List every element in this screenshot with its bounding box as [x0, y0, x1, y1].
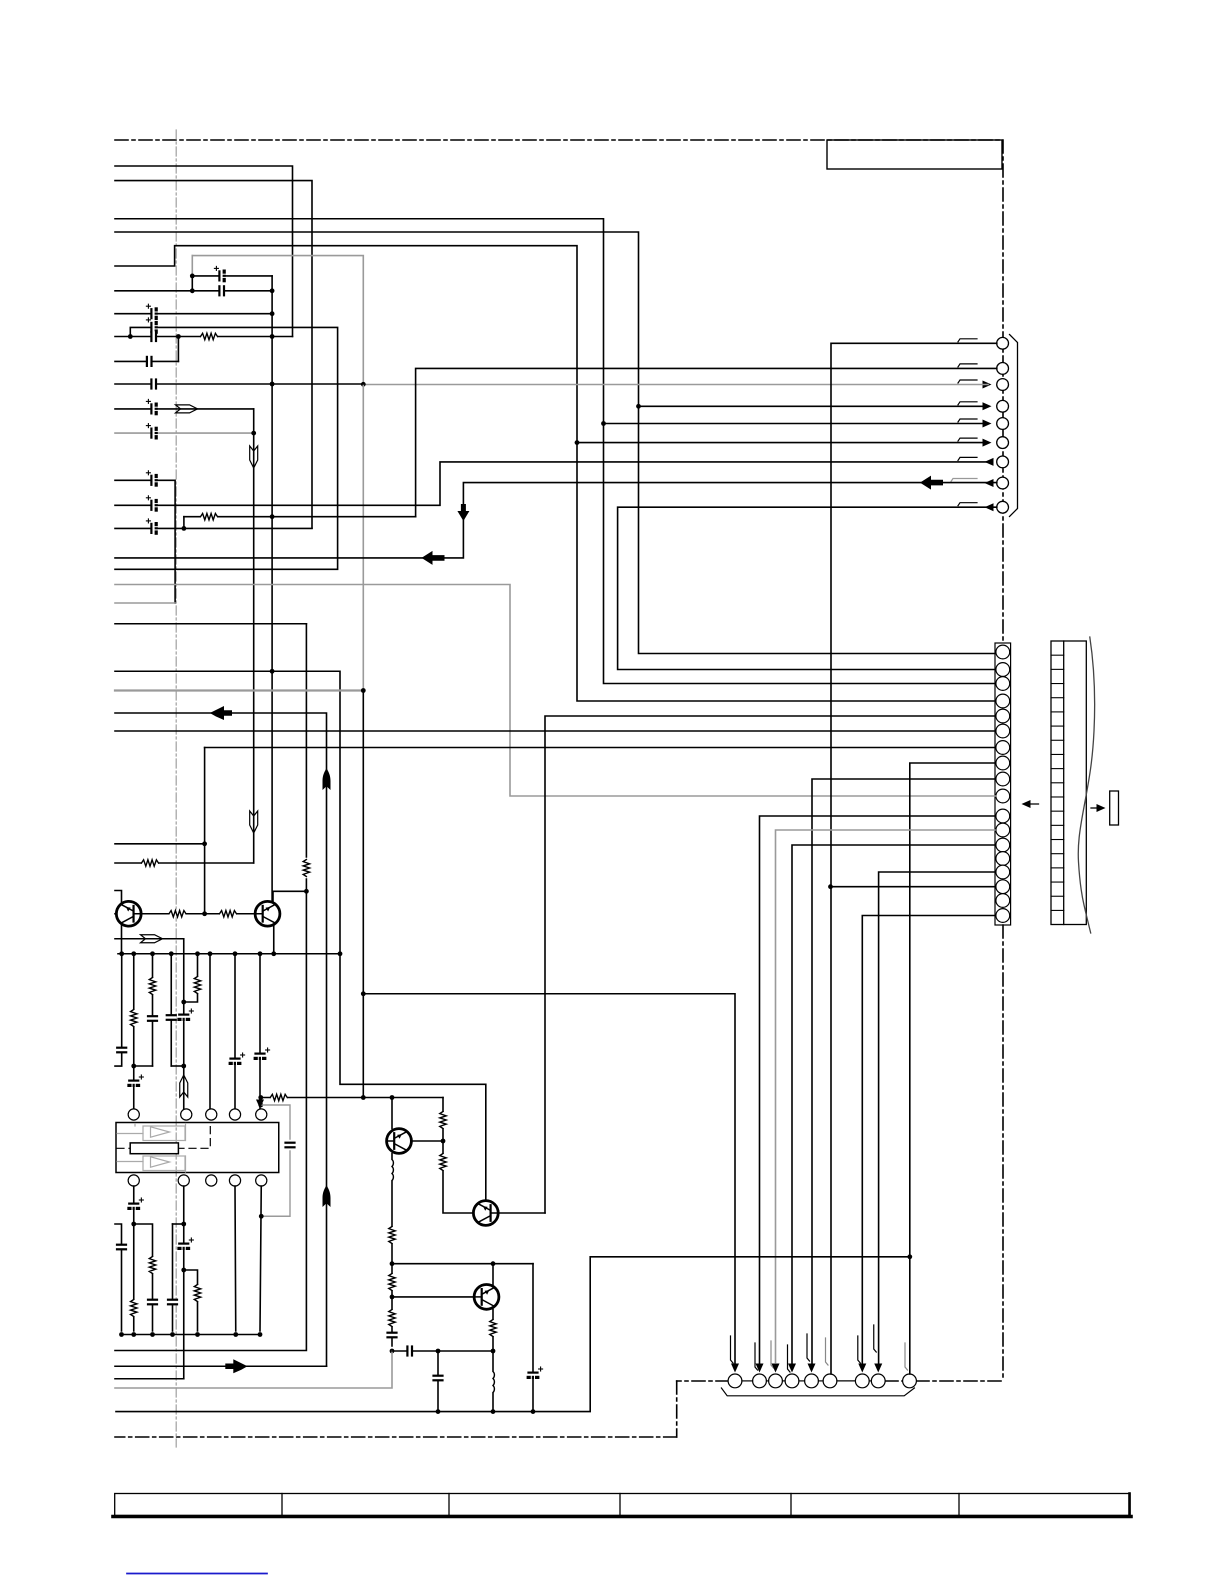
capacitor C13a vertical [117, 1048, 127, 1053]
gray wire row 603 from left edge [115, 602, 175, 604]
IC U1 internal gray stub upper [117, 1133, 143, 1135]
resistor R10 vertical [149, 1257, 156, 1274]
leg 152.5 with R7a and C13 [152, 954, 154, 1066]
connector CN-bot pin 9 hook mark [905, 1343, 908, 1370]
hyperlink underline bottom left [127, 1573, 267, 1575]
capacitor C3 (polarized) [146, 304, 158, 319]
junction lower bus [233, 1332, 238, 1337]
link between cap pair nodes [191, 276, 193, 291]
wire Q1 emitter to ground bus [121, 926, 123, 954]
connector CN-bot link 1-2 [742, 1380, 753, 1382]
connector CN-top pin 5 circle [997, 418, 1009, 430]
vertical 183.9 tap down to row 528.4 [183, 517, 185, 529]
lower long bus row 1411.6 [116, 1257, 910, 1412]
junction ground bus [169, 951, 174, 956]
resistor R16 vertical [389, 1274, 396, 1291]
connector CN-bot pin 9 circle [903, 1374, 917, 1388]
hollow flow arrow up to IC pin2 [180, 1075, 188, 1097]
wire CN-top pin1 net / long riser 830 [831, 343, 997, 1374]
capacitor C23 (polarized) vertical [179, 1238, 194, 1250]
hollow flow arrow right on row 938.75 [141, 935, 163, 943]
border: dash-dot link left of bottom connector [677, 1380, 729, 1382]
wire row 1378.75 from left edge [115, 1378, 184, 1380]
connector CN-top pin 4 circle [997, 400, 1009, 412]
connector CN-top pin 9 hook mark [958, 503, 977, 506]
wire net A2: row 180.6 to vertical 312 down to cap row 527.9 [115, 181, 312, 528]
connector CN-bot pin 3 circle [769, 1374, 783, 1388]
FFC connector contact column divider [1063, 641, 1065, 925]
arrowhead into CN-bot pin 5 [808, 1364, 816, 1373]
connector CN-mid pin 15 circle [996, 865, 1010, 879]
wire row 863 from left edge with R2 [115, 862, 254, 864]
gray chain down to IC pin5 leg [261, 1151, 290, 1216]
junction row 1263.7 [390, 1261, 395, 1266]
IC U1 internal gray link upper from pin1 [134, 1124, 136, 1127]
resistor R13 vertical [440, 1112, 447, 1129]
resistor R4 vertical [303, 860, 310, 877]
capacitor C4 (polarized) [146, 318, 158, 333]
FFC contact tick 8 [1051, 753, 1064, 755]
gray wire row 433.1 with C8 [115, 432, 254, 434]
transistor Q1 [116, 901, 141, 926]
connector CN-bot link 3-4 [782, 1380, 785, 1382]
junction ground bus [150, 951, 155, 956]
wire Q5 base [412, 1140, 444, 1142]
wire row 290.8 from left edge through C2 [115, 290, 272, 292]
vertical 306.4 upper segment [305, 624, 307, 857]
resistor R17 vertical [389, 1310, 396, 1327]
wire CN-mid pin15 riser 878.6 [879, 872, 995, 1363]
junction lower long bus [436, 1409, 441, 1414]
arrowhead into CN-bot pin 3 [772, 1364, 780, 1373]
capacitor C19 (polarized) vertical [129, 1198, 144, 1210]
connector CN-mid pin 13 circle [996, 838, 1010, 852]
link row 1066 right pair [171, 1065, 184, 1067]
wire net A3: row 218.75 to vertical 603.5 down to CN-mid pin3 [115, 219, 995, 684]
resistor R5 [169, 910, 186, 917]
FFC flex cable wave [1078, 637, 1094, 933]
chain 172.5 with C22 [173, 1223, 184, 1225]
table: column divider 4 [790, 1494, 792, 1516]
leg 121.7 with C13a to left edge [115, 954, 122, 1066]
junction lower bus [258, 1332, 263, 1337]
junction ground bus [271, 951, 276, 956]
resistor R9 vertical [130, 1300, 137, 1317]
connector CN-top pin 7 hook mark [958, 457, 977, 460]
border: bottom dash-dot boundary line [115, 1436, 677, 1438]
junction lower bus [150, 1332, 155, 1337]
lower bus row 1334.5 [122, 1334, 261, 1336]
IC U1 internal small box [130, 1143, 178, 1154]
junction row 516.7 on stem [270, 514, 275, 519]
connector CN-mid pin 6 circle [996, 724, 1010, 738]
connector CN-bot pin 3 hook mark [771, 1341, 774, 1368]
capacitor C13 vertical [147, 1016, 157, 1021]
connector CN-bot link 4-5 [799, 1380, 805, 1382]
FFC contact tick 10 [1051, 782, 1064, 784]
junction ground bus [195, 951, 200, 956]
wire row 313.7 from left edge with C3 [115, 313, 272, 315]
capacitor C6 [151, 379, 156, 389]
riser 443 with R13 R14 down to Q4 row [443, 1098, 473, 1214]
capacitor C2 [219, 286, 224, 296]
junction Q2 collector on vertical 306.4 [304, 889, 309, 894]
capacitor C14 vertical [166, 1015, 176, 1020]
connector CN-mid pin 3 circle [996, 677, 1010, 691]
junction pin6 leg row 1224 [131, 1222, 136, 1227]
leg 260 with C17 to IC pin5 [259, 954, 261, 1110]
wire row 1097.5 with R12 [261, 1097, 443, 1099]
IC U1 bottom pin 8 [206, 1175, 217, 1186]
connector CN-top pin 8 hook mark [951, 479, 977, 482]
arrowhead into CN-top pin 4 [983, 402, 992, 410]
junction ground bus [119, 951, 124, 956]
junction Q5 base row [441, 1139, 446, 1144]
junction row 1351 [390, 1349, 395, 1354]
junction ground bus [233, 951, 238, 956]
junction riser 830 row 886.7 [828, 884, 833, 889]
connector CN-top pin 5 hook mark [958, 419, 977, 422]
wire branch to CN-top pin4 [639, 405, 988, 407]
capacitor C17 (polarized) vertical [255, 1048, 270, 1060]
resistor R1 [201, 333, 218, 340]
IC U1 bottom pin 6 [128, 1175, 139, 1186]
wire row 623.75 to vertical 306.4 [115, 623, 306, 625]
IC U1 bottom pin 9 [229, 1175, 240, 1186]
FFC contact tick 11 [1051, 796, 1064, 798]
IC U1 top pin 1 [128, 1109, 139, 1120]
wire Q2 emitter to ground bus [273, 926, 275, 954]
connector CN-mid pin 2 circle [996, 663, 1010, 677]
branch row 1224 to chain 152.5 [134, 1224, 153, 1331]
capacitor C8 (polarized) [146, 424, 158, 439]
junction gray row 690.5 [361, 688, 366, 693]
junction riser 909.8 row 1256.8 [907, 1254, 912, 1259]
wire Q7 base row 1296.9 [392, 1296, 474, 1298]
wire cap-pair top row 275.9 [192, 275, 272, 277]
wire row 408.9 with C7 and flow arrow [115, 408, 254, 410]
gray wire CN-mid pin12 riser 775.5 [776, 830, 996, 1363]
capacitor C1 (polarized) [214, 266, 226, 281]
connector CN-bot bracket [721, 1388, 914, 1396]
table: column divider 2 [448, 1494, 450, 1516]
vertical 204.6 down to Q1/Q2 node [204, 748, 206, 914]
connector CN-bot pin 7 circle [855, 1374, 869, 1388]
capacitor C7 (polarized) [146, 399, 158, 414]
junction lower long bus [491, 1409, 496, 1414]
connector CN-top pin 6 hook mark [958, 438, 977, 441]
connector CN-bot pin 1 circle [728, 1374, 742, 1388]
connector CN-mid pin 11 circle [996, 809, 1010, 823]
border: light vertical dash-dot board divider [175, 130, 177, 1447]
connector CN-top pin 3 circle [997, 379, 1009, 391]
bold direction arrow left on row 557.9 [422, 551, 445, 565]
arrowhead into CN-top pin 6 [983, 439, 992, 447]
resistor R15 vertical [389, 1227, 396, 1244]
annotation arrow pointing right to label [1091, 807, 1102, 809]
junction gray vertical / pin3 wire [361, 382, 366, 387]
wire CN-mid pin18 riser 862.3 [862, 916, 995, 1364]
junction row 433.1 [251, 431, 256, 436]
table: thick bottom rule [113, 1515, 1131, 1519]
connector CN-bot pin 4 circle [785, 1374, 799, 1388]
wire CN-mid pin11 riser 759.5 [760, 816, 996, 1363]
wire row 361.4 from left edge with C6a [115, 360, 178, 362]
junction lower bus [195, 1332, 200, 1337]
connector CN-mid pin 7 circle [996, 741, 1010, 755]
IC U1 internal gray stub lower [117, 1161, 143, 1163]
junction leg row 1065 [131, 1064, 136, 1069]
connector CN-top pin 7 circle [997, 456, 1009, 468]
junction pin7 leg row 1270 [181, 1268, 186, 1273]
wire CN-mid pin8 riser 909.8 [910, 763, 995, 1374]
arrowhead into CN-bot pin 1 [731, 1364, 739, 1373]
resistor R11 vertical [194, 1285, 201, 1302]
connector CN-bot link 2-3 [766, 1380, 768, 1382]
border: right vertical dash-dot boundary (lower) [1002, 925, 1004, 1381]
connector CN-bot link 5-6 [818, 1380, 823, 1382]
table: title block bottom [115, 1494, 1130, 1516]
gray wire into CN-top pin3 [363, 384, 988, 386]
wire row 1263.7 link [392, 1263, 533, 1265]
junction on vertical 603.5 [601, 421, 606, 426]
capacitor C16 (polarized) vertical [230, 1053, 245, 1065]
junction row 1097.5 at 392 [390, 1095, 395, 1100]
wire row 843.8 from left edge [115, 843, 205, 845]
connector CN-bot pin 5 hook mark [807, 1334, 810, 1361]
leg 197.5 with R8 joining 183.75 [185, 954, 198, 1002]
FFC contact tick 19 [1051, 909, 1064, 911]
connector CN-top pin 4 hook mark [958, 402, 977, 405]
capacitor C6a [147, 356, 152, 366]
wire Q5 emitter chain [391, 1154, 393, 1347]
junction lower bus [119, 1332, 124, 1337]
resistor R7a vertical [149, 978, 156, 995]
wire branch to CN-top pin6 [577, 442, 987, 444]
capacitor C25 (polarized) vertical [528, 1367, 543, 1379]
IC U1 internal amp triangle lower [151, 1157, 170, 1167]
connector CN-top bracket [1010, 335, 1018, 517]
connector CN-bot pin 6 hook mark [826, 1338, 829, 1365]
IC U1 top pin 4 [229, 1109, 240, 1120]
IC U1 bottom pin 7 [178, 1175, 189, 1186]
capacitor C9 (polarized) [146, 471, 158, 486]
connector CN-mid pin 16 circle [996, 880, 1010, 894]
border: right vertical dash-dot boundary (upper) [1002, 140, 1004, 643]
leg pin6 with C19 R9 to lower bus [133, 1186, 135, 1331]
wire row 528.4 with C11 to vertical 312 [115, 527, 312, 529]
wire net A1: row 166 to vertical 292.5 down to resistor row 338 [115, 166, 293, 337]
gray branch from leg 260 to C18 chain [261, 1105, 290, 1139]
leg 210 straight to IC pin3 [209, 954, 211, 1110]
junction left cap pair top [190, 274, 195, 279]
arrowhead out of CN-top pin 9 [985, 503, 994, 511]
wire CN-mid pin16 branch [831, 886, 995, 888]
connector CN-bot pin 1 hook mark [731, 1336, 734, 1363]
junction row 1351 at 438 [436, 1349, 441, 1354]
resistor R18 vertical [490, 1320, 497, 1337]
wire Q4 output to riser 545 [499, 1212, 546, 1214]
bold direction arrow down on riser 463.4 [457, 504, 469, 521]
junction pin7 leg row 1224 [181, 1222, 186, 1227]
border: top dash-dot boundary line [115, 139, 1003, 141]
junction row 336.5 left [128, 334, 133, 339]
connector CN-bot pin 4 hook mark [788, 1345, 791, 1372]
wire row 993.75 to bottom connector pin1 [363, 994, 735, 1363]
leg 235 with C16 to IC pin4 [234, 954, 236, 1110]
junction leg 183.75 row 1002 [181, 1000, 186, 1005]
connector CN-bot pin 6 circle [823, 1374, 837, 1388]
leg pin10 down to lower bus end [260, 1186, 261, 1331]
IC U1 internal amp triangle upper [151, 1127, 170, 1137]
connector CN-bot pin 7 hook mark [858, 1336, 861, 1363]
capacitor C18 vertical [285, 1143, 295, 1148]
junction row 313.7 on stem [270, 311, 275, 316]
connector CN-mid pin 14 circle [996, 852, 1010, 866]
connector CN-bot link 7-8 [869, 1380, 871, 1382]
IC U1 top pin 5 [256, 1109, 267, 1120]
junction Q7 chain row 1351 [491, 1349, 496, 1354]
arrowhead into CN-top pin 3 [983, 381, 992, 389]
wire row 336.5 from left edge with C5 and R1 [115, 336, 293, 338]
branch 438 down with C27 [437, 1351, 439, 1409]
wire CN-mid pin6 row 731 [115, 730, 995, 732]
connector CN-bot pin 8 hook mark [874, 1325, 877, 1352]
wire row 327.4 cap branch up from row 336.5 [115, 327, 338, 569]
gray vertical 192.3 down to cap pair node [191, 256, 193, 276]
junction row 336.5 tap [176, 334, 181, 339]
FFC contact tick 2 [1051, 668, 1064, 670]
junction leg 260 row 1097.5 [258, 1095, 263, 1100]
resistor R8 vertical [194, 977, 201, 994]
arrowhead into CN-bot pin 7 [858, 1364, 866, 1373]
table: column divider 1 [281, 1494, 283, 1516]
connector CN-bot link 6-7 [837, 1380, 856, 1382]
left leg with C21 [115, 1224, 122, 1331]
wire row 671.25 to vertical 340 [115, 671, 340, 954]
wire net A5: row 266 up-jog row 245.7 to vertical 577 down to CN-mid pin4 [115, 246, 995, 701]
arrowhead into CN-bot pin 8 [874, 1364, 882, 1373]
wire row 1366.25 from left with bold right arrow [115, 1365, 327, 1367]
capacitor C27 vertical [433, 1376, 443, 1381]
FFC contact tick 7 [1051, 739, 1064, 741]
wire row 516.7 with R3 linking vertical 183.9 and CN-top pin2 riser [184, 516, 416, 518]
wire row 1351 link with C26 [392, 1350, 493, 1352]
wire CN-mid pin5 riser 545 from Q4 [545, 716, 995, 1213]
FFC contact tick 18 [1051, 895, 1064, 897]
ground bus row 953.75 [118, 953, 340, 955]
FFC contact tick 9 [1051, 768, 1064, 770]
junction ground bus [338, 951, 343, 956]
connector CN-bot pin 8 circle [871, 1374, 885, 1388]
leg pin7 down to row 1378.75 [183, 1186, 185, 1379]
junction ground bus [258, 951, 263, 956]
table: column divider 3 [619, 1494, 621, 1516]
junction row 993.75 on vertical 363.3 [361, 991, 366, 996]
capacitor C26 [407, 1346, 412, 1356]
arrowhead into CN-bot pin 4 [788, 1364, 796, 1373]
wire CN-top pin9 net riser 617.6 down to CN-mid pin2 [618, 507, 997, 669]
capacitor C21 vertical [116, 1245, 126, 1250]
capacitor C15 (polarized) vertical [179, 1009, 194, 1021]
IC U1 top pin 2 [181, 1109, 192, 1120]
capacitor C24 vertical [387, 1333, 397, 1338]
border: dash-dot link right of bottom connector [916, 1380, 1003, 1382]
wire CN-top pin2 riser [416, 368, 997, 516]
capacitor C10 (polarized) [146, 496, 158, 511]
connector CN-mid pin 1 circle [996, 645, 1010, 659]
border: dash-dot link between bottom connector pins 8-9 [885, 1380, 903, 1382]
small label box right of FFC [1110, 791, 1119, 825]
junction row 843.8 [202, 841, 207, 846]
vertical 306.4 lower segment to row 1350.5 [115, 879, 306, 1351]
IC U1 body [116, 1123, 279, 1173]
FFC contact tick 17 [1051, 881, 1064, 883]
bold flame arrow up at 779 [323, 768, 331, 790]
wire row 480.3 with C9 elbow down at divider [115, 480, 175, 603]
arrowhead out of CN-top pin 8 [985, 479, 994, 487]
connector CN-mid pin 12 circle [996, 823, 1010, 837]
wire Q1 base from left edge [115, 913, 116, 915]
connector CN-mid pin 5 circle [996, 709, 1010, 723]
connector CN-bot pin 2 circle [753, 1374, 767, 1388]
wire row 505.3 with C10 to vertical 440 up to CN-top pin7 [115, 462, 987, 505]
resistor R2 [142, 860, 159, 867]
IC U1 bottom pin 10 [256, 1175, 267, 1186]
resistor R12 [270, 1094, 287, 1101]
junction ground bus [131, 951, 136, 956]
transistor Q4 [473, 1201, 498, 1226]
gray wire CN-mid pin10 net [115, 585, 996, 797]
FFC contact tick 5 [1051, 711, 1064, 713]
connector CN-top pin 9 circle [997, 501, 1009, 513]
connector CN-top pin 8 circle [997, 477, 1009, 489]
FFC contact tick 6 [1051, 725, 1064, 727]
wire CN-top pin8 net with direction arrows [115, 483, 997, 558]
leg 171.25 with C14 [170, 954, 172, 1066]
wire row 384 from left edge with C6 [115, 383, 363, 385]
gray tail of Q5 chain to row 1384 [115, 1351, 392, 1388]
connector CN-top pin 6 circle [997, 437, 1009, 449]
bold flame arrow up at 1196 [323, 1185, 331, 1207]
leg 133.75 with R7 and C12 to IC pin1 [133, 954, 135, 1110]
transistor Q7 [474, 1285, 499, 1310]
FFC contact tick 16 [1051, 867, 1064, 869]
branch row 1270 with R11 [184, 1270, 198, 1331]
FFC contact tick 13 [1051, 824, 1064, 826]
inductor L1 vertical [390, 1159, 394, 1180]
table: column divider 5 [958, 1494, 960, 1516]
junction leg 260 row 1105 [258, 1103, 263, 1108]
wire branch to CN-top pin5 [604, 423, 988, 425]
junction lower bus [131, 1332, 136, 1337]
arrowhead into CN-bot pin 2 [756, 1364, 764, 1373]
junction lower long bus [531, 1409, 536, 1414]
junction on vertical 577 [575, 440, 580, 445]
wire CN-mid pin9 riser 812 [812, 779, 995, 1363]
wire Q1-Q2 link with R5 R6 [141, 913, 255, 915]
FFC contact tick 12 [1051, 810, 1064, 812]
wire CN-mid pin13 riser 792 [792, 845, 995, 1363]
junction left cap pair bottom [190, 288, 195, 293]
IC U1 internal amp block lower [143, 1156, 185, 1171]
capacitor C22 vertical [167, 1300, 177, 1305]
gray wire net B: elbow 192.3/255.6 across to vertical 363.3 [192, 256, 363, 384]
junction right cap pair bottom [270, 288, 275, 293]
gray vertical 363.3 down to row 690.5 [362, 385, 364, 691]
wire row 713 with notched arrow to vertical 326.5 [115, 713, 327, 1366]
connector CN-top pin 1 circle [997, 337, 1009, 349]
